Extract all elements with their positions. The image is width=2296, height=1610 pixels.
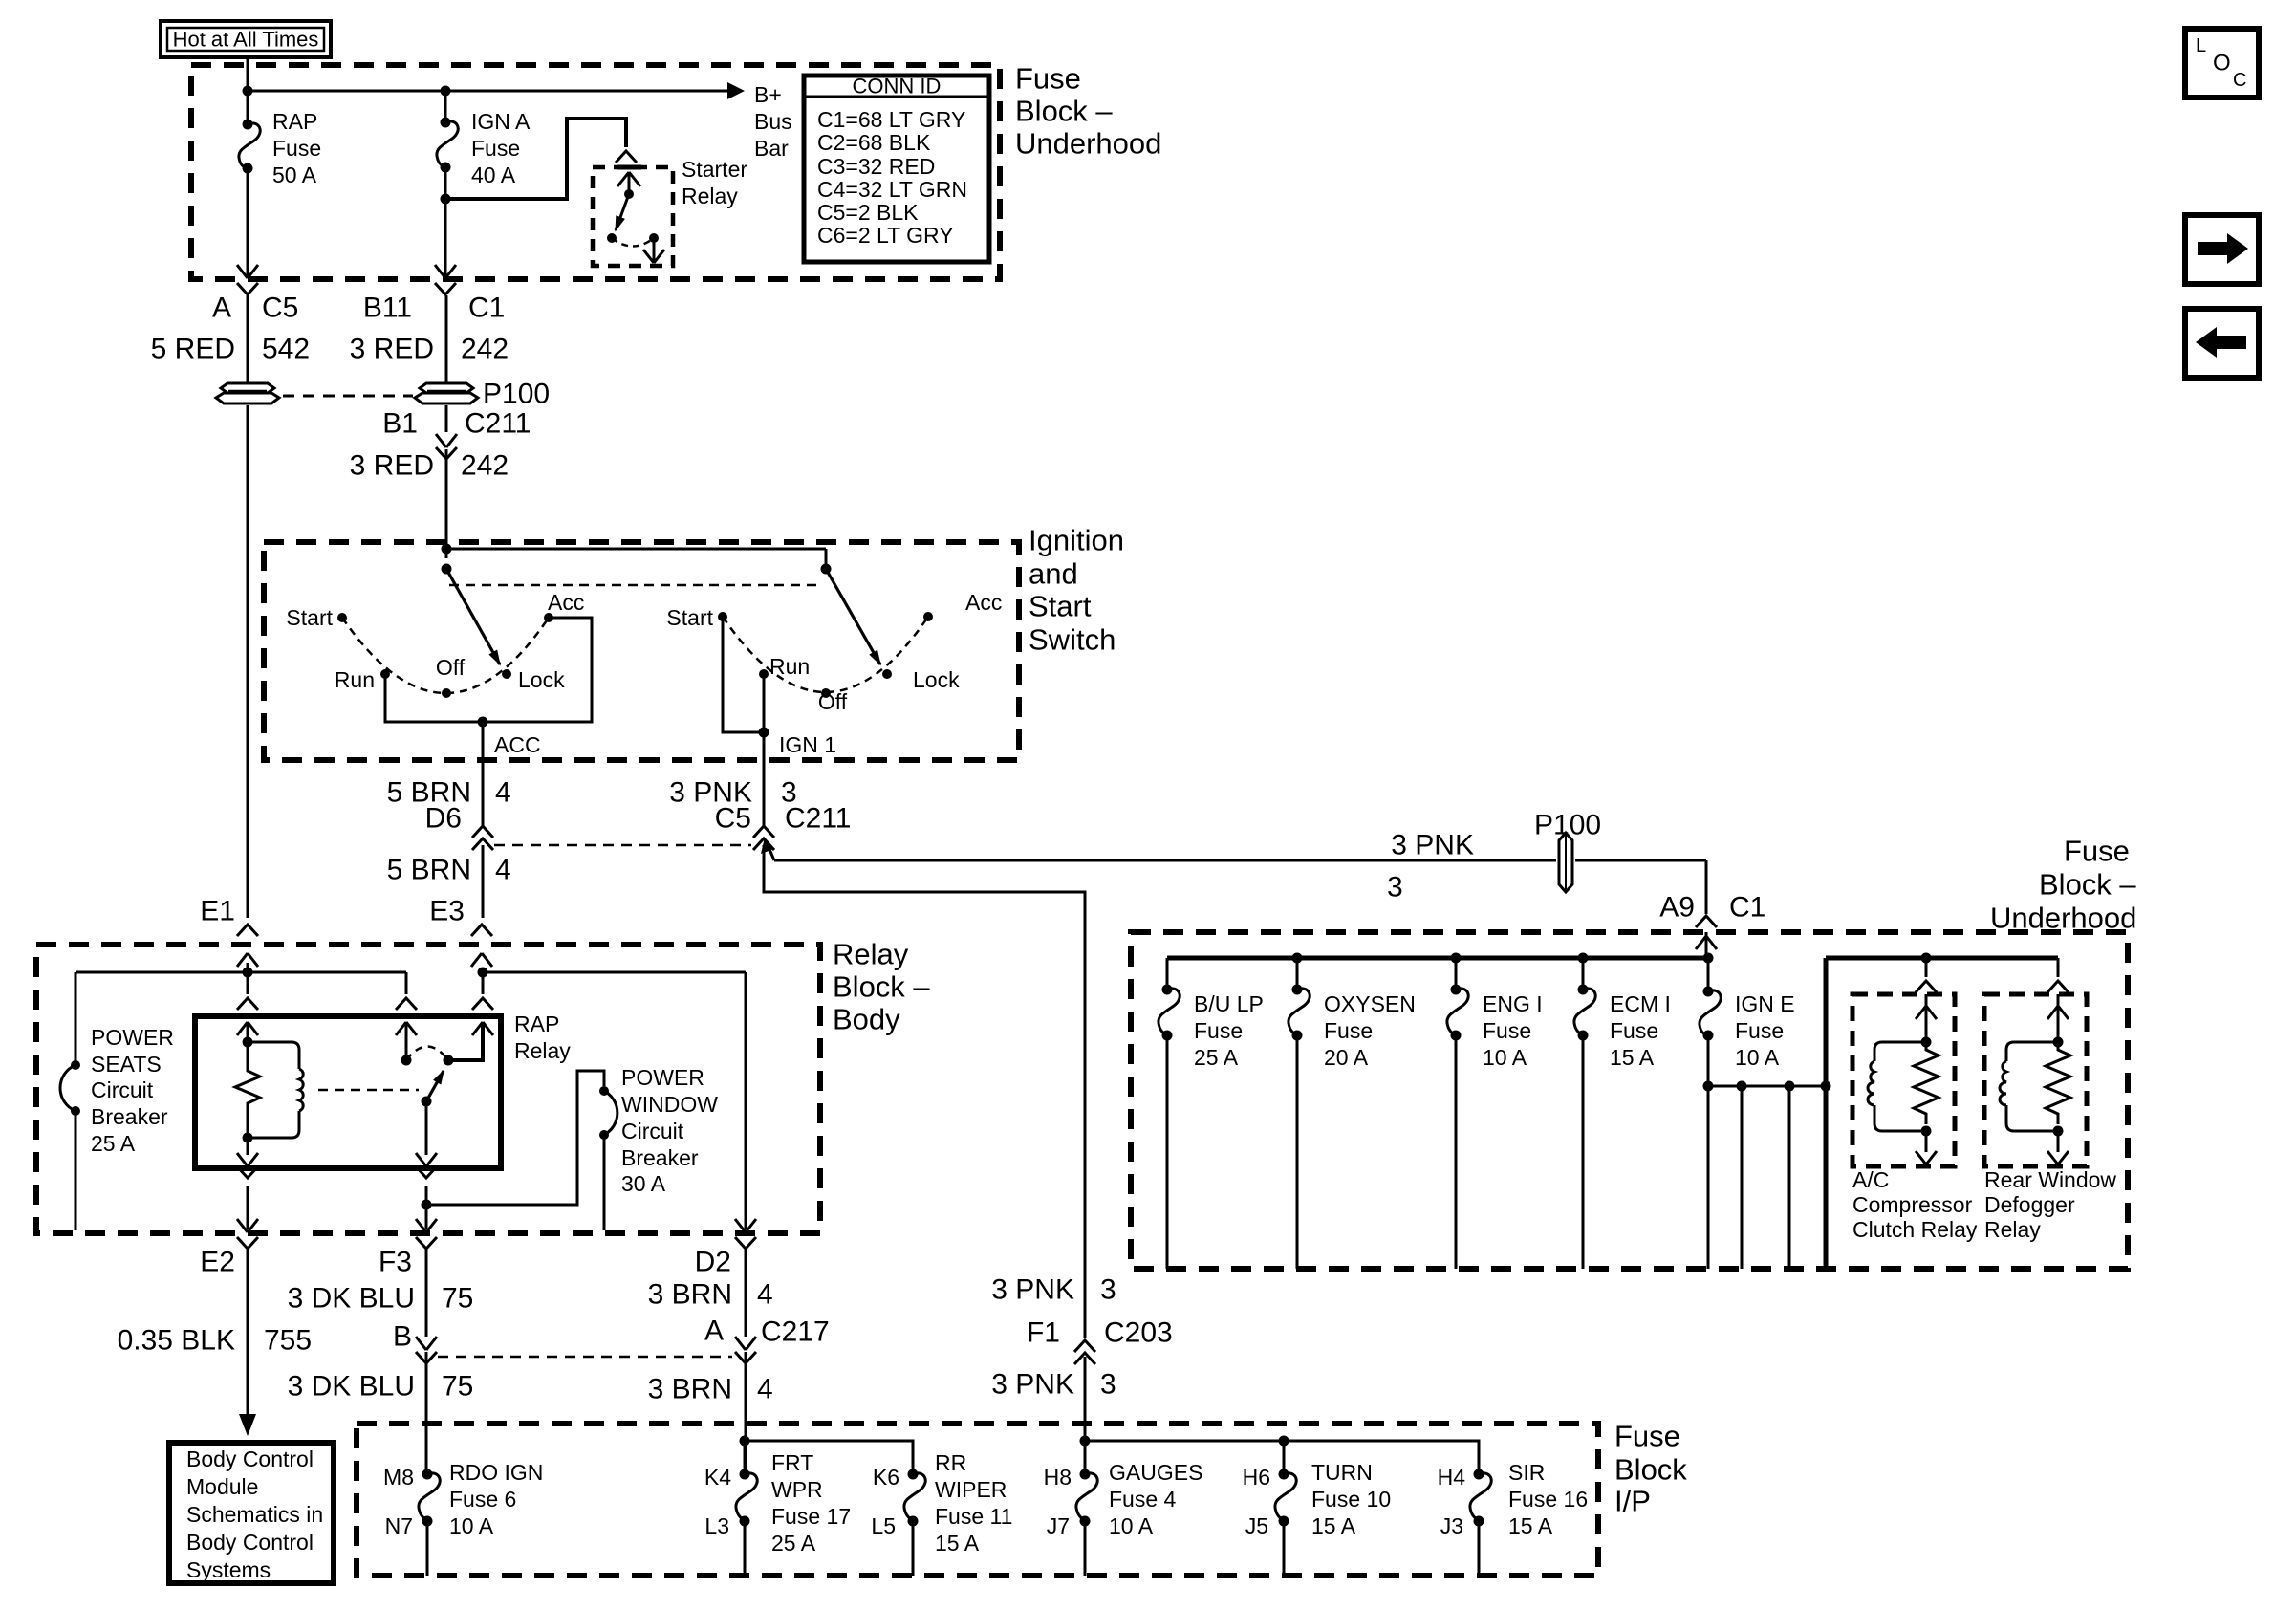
node E1 junction (247, 963, 249, 970)
connector crossing C5 cavity A (237, 265, 258, 278)
svg-text:B+: B+ (754, 82, 782, 107)
svg-text:15 A: 15 A (1311, 1513, 1356, 1538)
svg-text:H6: H6 (1243, 1465, 1270, 1490)
svg-text:755: 755 (264, 1325, 312, 1357)
svg-text:WPR: WPR (771, 1477, 823, 1502)
svg-text:C5=2 BLK: C5=2 BLK (817, 200, 919, 225)
svg-text:Fuse 4: Fuse 4 (1109, 1487, 1177, 1512)
svg-text:C1: C1 (468, 293, 505, 324)
svg-text:Bar: Bar (754, 136, 789, 161)
wire IGN A run to P100 (445, 295, 448, 382)
ignition bank1 rotary dashed arc (342, 618, 549, 693)
svg-text:Circuit: Circuit (621, 1119, 684, 1143)
node bank2 Run (759, 669, 769, 679)
svg-text:3: 3 (1100, 1369, 1116, 1401)
svg-text:Fuse: Fuse (1610, 1018, 1658, 1043)
svg-text:RR: RR (935, 1450, 966, 1475)
svg-text:Lock: Lock (518, 667, 565, 692)
svg-text:Circuit: Circuit (91, 1077, 154, 1102)
AC relay output arrow (1925, 1131, 1928, 1152)
connector chevron E3 relay box (472, 998, 493, 1010)
wire branch to TURN and SIR (1085, 1441, 1479, 1474)
fuse ENG I 10A (1455, 958, 1458, 990)
wire E1 into RAP relay (247, 972, 249, 994)
defogger relay coil branch (2006, 1042, 2058, 1061)
starter relay output arrow (653, 238, 656, 262)
svg-text:IGN E: IGN E (1735, 991, 1795, 1016)
svg-text:3 DK BLU: 3 DK BLU (288, 1371, 415, 1403)
wire F3 output (425, 1205, 428, 1229)
svg-text:Fuse: Fuse (1324, 1018, 1373, 1043)
fuse SIR Fuse 16 15A (1474, 1469, 1484, 1480)
grommet P100 right (420, 383, 473, 393)
svg-text:3 PNK: 3 PNK (1391, 830, 1474, 861)
3 PNK feed wire left of P100 (774, 859, 1556, 862)
fuse block I/P dashed border (357, 1424, 1598, 1576)
node defogger relay bottom (2053, 1126, 2064, 1137)
3 PNK feed wire right of P100 (1575, 859, 1706, 862)
bank1 Acc-Run circuit wire (385, 618, 592, 722)
svg-text:L5: L5 (871, 1513, 896, 1538)
AC relay input arrow (1916, 1006, 1937, 1019)
node rail b (1785, 1081, 1795, 1092)
svg-text:and: and (1029, 557, 1078, 591)
svg-text:10 A: 10 A (1483, 1045, 1527, 1070)
svg-text:A: A (212, 293, 231, 324)
RAP relay wiper arrow (422, 1097, 432, 1107)
svg-text:C1: C1 (1729, 892, 1765, 924)
fuse OXYSEN 20A (1296, 958, 1299, 990)
node defogger relay top (2053, 1037, 2064, 1048)
svg-text:F1: F1 (1027, 1317, 1060, 1349)
svg-text:N7: N7 (385, 1513, 413, 1538)
svg-text:4: 4 (757, 1279, 773, 1311)
wire SIR output (1478, 1521, 1481, 1576)
B+ bus bar arrow (727, 82, 745, 99)
svg-text:C5: C5 (715, 803, 751, 835)
node bus IGN E (1703, 953, 1714, 964)
svg-text:Fuse 16: Fuse 16 (1508, 1487, 1588, 1512)
grommet P100 left (221, 383, 274, 393)
node bank1 Acc (544, 613, 553, 622)
connector crossing E3 into relay block (471, 925, 492, 936)
wire TURN output (1283, 1521, 1286, 1576)
connector chevrons C203 F1 (1074, 1340, 1095, 1352)
svg-text:0.35 BLK: 0.35 BLK (118, 1325, 235, 1357)
svg-text:Fuse 10: Fuse 10 (1311, 1487, 1391, 1512)
wire E2 to block edge (247, 1186, 249, 1229)
svg-text:H4: H4 (1438, 1465, 1466, 1490)
svg-text:RDO IGN: RDO IGN (449, 1460, 543, 1485)
node relay switch common (401, 1055, 412, 1066)
wire TURN drop (1283, 1441, 1286, 1474)
wire E2 down (247, 1249, 249, 1417)
svg-text:OXYSEN: OXYSEN (1324, 991, 1416, 1016)
wire into ignition switch (445, 449, 448, 558)
AC compressor clutch relay dashed box (1852, 994, 1955, 1166)
wire below P100 right (445, 405, 448, 432)
svg-text:15 A: 15 A (1610, 1045, 1655, 1070)
node IGN1 output junction (759, 728, 769, 738)
svg-text:SEATS: SEATS (91, 1052, 162, 1077)
RAP relay coil input arrow (237, 1022, 258, 1035)
node bank1 pivot (442, 564, 452, 575)
svg-text:TURN: TURN (1311, 1460, 1373, 1485)
svg-text:Acc: Acc (965, 590, 1002, 615)
wire defogger relay drop (2057, 958, 2060, 977)
arrow to body control module (239, 1414, 256, 1436)
wire from Hot at All Times box to bus (247, 57, 249, 91)
connector crossing C211 cavity B1 (436, 434, 457, 447)
ignition and start switch dashed box (264, 542, 1019, 760)
svg-text:Fuse: Fuse (272, 136, 321, 161)
wire IGN A to starter relay (445, 119, 626, 199)
node IGN E distribution (1703, 1081, 1714, 1092)
svg-text:Relay: Relay (833, 938, 909, 971)
fuse block - underhood (top) dashed border (191, 65, 1000, 279)
connector crossing D2 (735, 1219, 756, 1232)
node bank2 Off (821, 688, 831, 698)
svg-text:A9: A9 (1659, 892, 1695, 924)
svg-text:K6: K6 (873, 1465, 899, 1490)
arrow right icon box (2185, 215, 2259, 284)
svg-text:Rear Window: Rear Window (1984, 1167, 2116, 1192)
node ACC output junction (478, 717, 488, 728)
wire pivot to E3 entry (448, 1022, 483, 1060)
svg-text:I/P: I/P (1614, 1485, 1651, 1518)
svg-text:10 A: 10 A (449, 1513, 494, 1538)
wire ignition top bus (446, 548, 826, 551)
wire ENG I output (1455, 1035, 1458, 1269)
starter relay dashed arc (612, 238, 654, 247)
connector chevron E2 below relay box (237, 1166, 258, 1178)
svg-text:3 PNK: 3 PNK (991, 1369, 1074, 1401)
node E3 junction (478, 968, 488, 978)
svg-text:Fuse: Fuse (1614, 1420, 1680, 1453)
svg-text:5 BRN: 5 BRN (387, 855, 471, 886)
svg-text:IGN 1: IGN 1 (779, 732, 836, 757)
node rail c (1821, 1081, 1831, 1092)
svg-text:Bus: Bus (754, 109, 792, 134)
svg-text:C: C (2233, 70, 2246, 91)
svg-text:P100: P100 (483, 379, 550, 410)
svg-text:Fuse 11: Fuse 11 (935, 1504, 1012, 1529)
svg-text:75: 75 (442, 1283, 473, 1315)
fuse GAUGES Fuse 4 10A (1080, 1469, 1091, 1480)
svg-text:B: B (393, 1321, 412, 1353)
svg-text:5 RED: 5 RED (151, 334, 235, 365)
connector chevron E1 relay box (237, 998, 258, 1010)
bus bar underhood (1167, 956, 1708, 961)
wire E1 trunk below P100 (247, 405, 249, 918)
svg-text:WINDOW: WINDOW (621, 1092, 718, 1117)
wire OXYSEN output (1296, 1035, 1299, 1269)
node bank2 Acc (923, 612, 933, 621)
fuse RDO IGN Fuse 6 10A (422, 1469, 433, 1480)
node AC relay top (1921, 1037, 1932, 1048)
svg-text:K4: K4 (704, 1465, 731, 1490)
svg-text:Off: Off (818, 689, 848, 714)
svg-text:Body Control: Body Control (186, 1447, 314, 1471)
svg-text:Underhood: Underhood (1015, 127, 1161, 161)
svg-text:Block –: Block – (833, 970, 930, 1004)
svg-text:L: L (2196, 35, 2206, 56)
RAP relay resistor (235, 1042, 260, 1138)
wire B/U LP output (1166, 1035, 1169, 1269)
svg-text:10 A: 10 A (1109, 1513, 1154, 1538)
wire ECM I output (1582, 1035, 1585, 1269)
wire power seats branch (75, 972, 77, 1065)
node rail a (1737, 1081, 1747, 1092)
connector chevrons D6 (472, 826, 493, 838)
circuit breaker POWER WINDOW 30A (599, 1086, 609, 1096)
wire D2 into IP block (745, 1352, 747, 1474)
svg-text:Lock: Lock (913, 667, 960, 692)
svg-text:Body Control: Body Control (186, 1530, 314, 1555)
fuse block - underhood (right) dashed border (1131, 932, 2128, 1269)
wire E1 rail to switch (405, 972, 408, 994)
fuse FRT WPR Fuse 17 25A (744, 1441, 747, 1474)
defogger relay input arrow (2047, 1006, 2069, 1019)
svg-text:3 PNK: 3 PNK (991, 1274, 1074, 1306)
wire ACC output (482, 722, 485, 826)
dashed link P100 pair (283, 395, 413, 398)
wire relay feed riser (1824, 958, 1829, 1269)
svg-text:Fuse: Fuse (1735, 1018, 1784, 1043)
svg-text:Body: Body (833, 1003, 900, 1036)
connector crossing A C217 (735, 1337, 756, 1350)
fuse RR WIPER Fuse 11 15A (908, 1469, 919, 1480)
svg-text:B1: B1 (382, 408, 418, 440)
svg-text:C1=68 LT GRY: C1=68 LT GRY (817, 107, 965, 132)
svg-text:Fuse 6: Fuse 6 (449, 1487, 516, 1512)
svg-text:Systems: Systems (186, 1557, 271, 1582)
svg-text:Fuse: Fuse (1483, 1018, 1531, 1043)
node relay switch pivot (444, 1055, 454, 1066)
svg-text:25 A: 25 A (771, 1531, 816, 1556)
svg-text:242: 242 (461, 450, 509, 482)
svg-text:WIPER: WIPER (935, 1477, 1007, 1502)
fuse IGN E 10A (1707, 958, 1710, 991)
wire power window output (603, 1135, 606, 1230)
svg-text:E2: E2 (200, 1247, 235, 1278)
relay block - body dashed border (36, 945, 820, 1233)
svg-text:3: 3 (1387, 872, 1403, 903)
svg-text:RAP: RAP (514, 1012, 559, 1036)
svg-text:Off: Off (436, 655, 466, 680)
svg-text:3 RED: 3 RED (350, 334, 434, 365)
svg-text:4: 4 (757, 1374, 773, 1405)
connector chevron into starter relay (616, 151, 637, 163)
svg-text:POWER: POWER (91, 1025, 174, 1050)
node relay coil bottom (243, 1133, 253, 1143)
svg-text:25 A: 25 A (1194, 1045, 1239, 1070)
dashed mechanical link relay (318, 1089, 419, 1092)
wire IGN E out 3 (1788, 1086, 1791, 1269)
defogger relay coil (2000, 1061, 2006, 1105)
wire E1 horizontal rail (76, 971, 406, 974)
svg-text:L3: L3 (704, 1513, 729, 1538)
node bank1 Run (380, 669, 390, 679)
svg-text:Relay: Relay (1984, 1217, 2041, 1242)
starter relay lower-left node (607, 233, 617, 243)
svg-text:J3: J3 (1440, 1513, 1463, 1538)
connector chevrons C211 (753, 826, 774, 838)
wire A9 into bus (1705, 932, 1708, 958)
wire RDO IGN output (426, 1521, 429, 1576)
RAP relay coil output arrow (247, 1138, 249, 1155)
connector crossing B (416, 1337, 437, 1350)
svg-text:30 A: 30 A (621, 1171, 666, 1196)
svg-text:B11: B11 (363, 293, 412, 324)
bank1 wiper arrow (446, 569, 500, 664)
AC relay coil (1868, 1061, 1874, 1105)
svg-text:Starter: Starter (682, 157, 747, 182)
node GAUGES branch (1080, 1436, 1091, 1447)
node relay feed AC (1921, 953, 1932, 964)
svg-text:C217: C217 (761, 1316, 830, 1348)
svg-text:Switch: Switch (1029, 623, 1116, 657)
svg-text:Breaker: Breaker (621, 1145, 699, 1170)
svg-text:FRT: FRT (771, 1450, 813, 1475)
svg-text:RAP: RAP (272, 109, 317, 134)
svg-text:Module: Module (186, 1474, 258, 1499)
svg-text:Start: Start (1029, 590, 1092, 623)
wire IGN E distribution rail (1708, 1085, 1826, 1088)
wire GAUGES output (1084, 1521, 1087, 1576)
svg-text:Hot at All Times: Hot at All Times (173, 28, 319, 52)
starter relay moving contact (616, 194, 629, 230)
node bank2 Lock (882, 669, 892, 679)
fuse IGN A 40 A (444, 91, 447, 122)
svg-text:ACC: ACC (494, 732, 541, 757)
svg-text:40 A: 40 A (471, 163, 516, 187)
svg-text:Fuse 17: Fuse 17 (771, 1504, 851, 1529)
svg-text:SIR: SIR (1508, 1460, 1545, 1485)
ignition bank2 rotary dashed arc (723, 617, 928, 692)
svg-text:IGN A: IGN A (471, 109, 531, 134)
svg-text:Breaker: Breaker (91, 1104, 168, 1129)
dashed link C211 connector pair (494, 844, 751, 847)
svg-text:Block –: Block – (2039, 868, 2136, 902)
svg-text:242: 242 (461, 334, 509, 365)
svg-text:J5: J5 (1245, 1513, 1268, 1538)
connector crossing A9 into fuse block (1696, 916, 1717, 927)
circuit breaker POWER SEATS 25A (71, 1060, 80, 1070)
node bus-IGN A junction (441, 86, 451, 97)
starter relay pivot node (624, 189, 634, 199)
svg-text:20 A: 20 A (1324, 1045, 1369, 1070)
svg-text:J7: J7 (1047, 1513, 1070, 1538)
wire F3 down (425, 1249, 428, 1337)
RAP relay switch dashed arc (406, 1047, 448, 1061)
svg-text:CONN ID: CONN ID (853, 75, 942, 98)
svg-text:Start: Start (286, 605, 333, 630)
node relay coil top (243, 1037, 253, 1048)
RAP relay E3 arrow (472, 1022, 493, 1035)
node F3 junction (425, 1186, 428, 1205)
node AC relay bottom (1921, 1126, 1932, 1137)
wire ACC D6 to E3 (482, 845, 485, 918)
svg-text:50 A: 50 A (272, 163, 317, 187)
starter relay dashed box (593, 167, 673, 266)
svg-text:Start: Start (666, 605, 713, 630)
dashed mechanical link between banks (449, 584, 820, 587)
svg-text:75: 75 (442, 1371, 473, 1403)
svg-text:Ignition: Ignition (1029, 524, 1124, 557)
node bus OXYSEN (1292, 953, 1303, 964)
label: Hot at All Times box (161, 21, 331, 57)
svg-text:Relay: Relay (514, 1038, 571, 1063)
svg-text:Compressor: Compressor (1852, 1192, 1973, 1217)
node FRT WPR branch (740, 1436, 750, 1447)
wire branch to RR WIPER (745, 1441, 913, 1474)
svg-text:3 RED: 3 RED (350, 450, 434, 482)
svg-text:C211: C211 (785, 803, 852, 835)
svg-text:M8: M8 (383, 1465, 414, 1490)
svg-text:Relay: Relay (682, 184, 738, 208)
svg-text:C203: C203 (1104, 1317, 1173, 1349)
svg-text:Clutch Relay: Clutch Relay (1852, 1217, 1978, 1242)
wire F3 to power window breaker (426, 1071, 604, 1205)
svg-text:Fuse: Fuse (1015, 62, 1081, 96)
connector chevron F3 below relay box (416, 1166, 437, 1178)
svg-text:Fuse: Fuse (2064, 835, 2130, 868)
B+ bus bar wire (248, 90, 727, 93)
RAP relay coil (299, 1069, 303, 1111)
svg-text:H8: H8 (1044, 1465, 1072, 1490)
starter relay lower-right node (649, 233, 659, 243)
svg-text:Underhood: Underhood (1990, 902, 2136, 935)
connector crossing F3 (416, 1219, 437, 1232)
svg-text:Schematics in: Schematics in (186, 1502, 323, 1527)
svg-text:Fuse: Fuse (1194, 1018, 1243, 1043)
wire IGN E output (1707, 1035, 1710, 1086)
svg-text:15 A: 15 A (935, 1531, 980, 1556)
wire AC relay drop (1925, 958, 1928, 977)
RAP relay switch feed arrow (396, 1022, 417, 1035)
svg-text:Run: Run (335, 667, 375, 692)
node bank2 pivot (821, 564, 832, 575)
svg-text:B/U LP: B/U LP (1194, 991, 1264, 1016)
svg-text:D2: D2 (695, 1247, 731, 1278)
connector chevron switch feed (396, 998, 417, 1010)
node bus ENG I (1451, 953, 1462, 964)
fuse TURN Fuse 10 15A (1279, 1469, 1289, 1480)
node bus ECM I (1578, 953, 1589, 964)
LOC icon box (2185, 29, 2259, 98)
node bank2 Start (718, 612, 727, 621)
3 PNK feed arrowhead into C211 (767, 842, 774, 860)
svg-text:E3: E3 (429, 896, 465, 927)
svg-text:C211: C211 (465, 408, 531, 440)
connector crossing E2 (237, 1219, 258, 1232)
svg-text:C6=2 LT GRY: C6=2 LT GRY (817, 223, 954, 248)
svg-text:Acc: Acc (548, 590, 584, 615)
svg-text:GAUGES: GAUGES (1109, 1460, 1202, 1485)
svg-text:C4=32 LT GRN: C4=32 LT GRN (817, 177, 967, 202)
AC relay resistor (1914, 1042, 1939, 1124)
svg-text:C3=32 RED: C3=32 RED (817, 154, 935, 179)
wire IGN E out 1 (1707, 1086, 1710, 1269)
svg-text:ENG I: ENG I (1483, 991, 1543, 1016)
node ignition feed split (442, 544, 452, 555)
starter relay contact arrow up (617, 172, 640, 186)
wire FRT WPR output (744, 1521, 747, 1576)
svg-text:542: 542 (262, 334, 310, 365)
grommet P100 vertical (1559, 833, 1572, 892)
bus bar relay feed (1826, 956, 2058, 961)
